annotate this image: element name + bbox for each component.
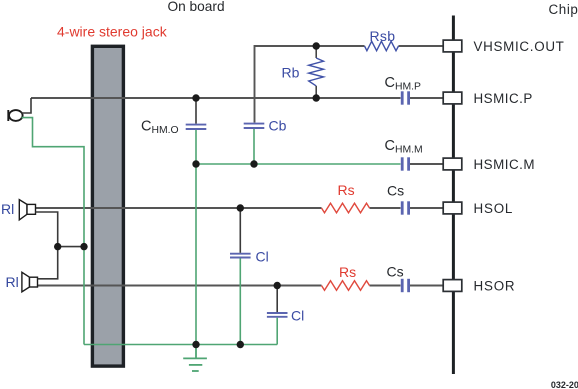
wire: green below C_HM.O down to ground rail (195, 130, 197, 345)
svg-text:4-wire stereo jack: 4-wire stereo jack (57, 24, 168, 40)
node: HSMIC.P / C_HM.O (192, 94, 199, 101)
node: HSMIC.M / C_HM.O branch (192, 160, 199, 167)
svg-text:Rs: Rs (339, 264, 356, 280)
wire: bottom green ground rail (84, 344, 277, 346)
pin VHSMIC.OUT (443, 40, 462, 52)
svg-text:Rs: Rs (338, 182, 355, 198)
svg-text:Rsb: Rsb (370, 28, 396, 44)
wire: mic ground green (22, 118, 85, 345)
capacitor C_HM.M (series on HSMIC.M) (402, 157, 408, 170)
wire: stem HSOL to Cl (239, 208, 241, 253)
node: ground rail / C_HM.O branch (192, 341, 199, 348)
svg-text:Cl: Cl (256, 249, 269, 265)
svg-text:Cb: Cb (269, 117, 287, 133)
svg-text:Rl: Rl (6, 274, 19, 290)
wire: Rsb to pin VHSMIC.OUT (399, 45, 446, 47)
speaker SP1 (left) (19, 200, 35, 220)
wire: stem HSOR to Cl2 (276, 286, 278, 313)
wire: HSMIC.P main line (31, 97, 401, 99)
wire: green below Cb to HSMIC.M (253, 129, 255, 164)
svg-text:HSOL: HSOL (474, 201, 514, 216)
node: speaker common riser (54, 243, 61, 250)
svg-text:Rl: Rl (1, 201, 14, 217)
wire: HSOR line (38, 285, 322, 287)
capacitor Cl (HSOR shunt) (267, 313, 288, 317)
pin HSMIC.P (443, 92, 462, 104)
microphone MK1 (8, 110, 22, 121)
wire: green below Cl to rail (239, 258, 241, 344)
wire: speaker common link to green (58, 246, 84, 248)
capacitor Cs (HSOL) (402, 201, 408, 214)
svg-text:Cs: Cs (387, 263, 404, 279)
node: HSOL / Cl branch (237, 204, 244, 211)
wire: green below Cl2 to rail (276, 318, 278, 345)
capacitor C_HM.O (shunt) (186, 125, 207, 129)
wire: HSMIC.M green line (196, 163, 401, 165)
pin HSOR (443, 280, 462, 292)
resistor Rs (HSOR) (322, 281, 370, 291)
node: ground rail / Cl branch (237, 341, 244, 348)
capacitor C_HM.P (series on HSMIC.P) (402, 91, 408, 104)
resistor Rs (HSOL) (322, 203, 370, 213)
svg-text:Cl: Cl (291, 308, 304, 324)
svg-text:Cs: Cs (387, 182, 404, 198)
capacitor Cs (HSOR) (402, 279, 408, 292)
node: HSMIC.M / Cb branch (250, 160, 257, 167)
pin HSOL (443, 202, 462, 214)
svg-text:Rb: Rb (282, 65, 300, 81)
wire: HSMIC.M black segment cap to pin (410, 163, 445, 165)
4-wire stereo jack (connector body J1) (92, 46, 123, 366)
svg-text:HSMIC.M: HSMIC.M (474, 157, 536, 172)
svg-text:032-20: 032-20 (551, 380, 578, 389)
wire: stem above C_HM.O (195, 98, 197, 124)
resistor Rb (vertical) (315, 46, 317, 58)
node: HSMIC.P / Rb bottom (313, 94, 320, 101)
wire: VHSMIC.OUT net top horizontal (255, 46, 365, 123)
capacitor Cl (HSOL shunt) (230, 254, 251, 258)
node: speaker common on green (80, 243, 87, 250)
chip boundary line (452, 16, 455, 375)
pin HSMIC.M (443, 158, 462, 170)
svg-text:HSMIC.P: HSMIC.P (474, 91, 533, 106)
resistor Rsb (365, 41, 399, 50)
wire: mic positive to HSMIC.P (22, 98, 32, 113)
svg-text:Chip: Chip (549, 2, 578, 17)
wire: HSOL line (36, 207, 322, 209)
wire: speaker commons riser (36, 212, 58, 279)
capacitor Cb (shunt) (244, 124, 265, 128)
node: Rsb/Rb top (313, 42, 320, 49)
svg-text:VHSMIC.OUT: VHSMIC.OUT (474, 39, 565, 54)
ground symbol (183, 345, 207, 372)
svg-text:HSOR: HSOR (474, 279, 516, 294)
svg-text:On board: On board (168, 0, 225, 14)
node: HSOR / Cl2 branch (274, 282, 281, 289)
speaker SP2 (right) (22, 272, 38, 292)
